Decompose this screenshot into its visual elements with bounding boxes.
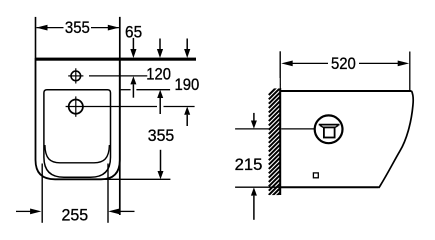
- 215 up arrow: [251, 187, 257, 195]
- drain hole (large, circle with cross): [69, 100, 83, 114]
- svg-text:190: 190: [174, 76, 199, 94]
- up arrow 120 dim: [157, 90, 163, 98]
- hatch top/bottom trim masks: [268, 78, 280, 88]
- svg-text:65: 65: [125, 23, 142, 41]
- bowl inner line: [45, 145, 110, 163]
- svg-text:215: 215: [235, 156, 263, 174]
- svg-text:355: 355: [65, 19, 90, 37]
- dimension 355 top: line + arrows: [36, 27, 63, 29]
- wall line (plan view, thick top edge): [35, 58, 196, 61]
- bidet rim outline: [44, 90, 111, 178]
- bottom extension line (355 dim): [95, 178, 170, 180]
- drain symbol lid bar: [319, 124, 340, 126]
- dimension 520: arrows + line: [281, 61, 293, 67]
- wall face line (side view): [279, 51, 281, 89]
- svg-text:520: 520: [331, 55, 356, 73]
- down arrow 355 vertical dim: [160, 150, 162, 172]
- small fixing square: [313, 173, 318, 178]
- left edge extension above: [35, 17, 37, 58]
- up arrow 190 dim: [184, 107, 190, 115]
- leader from drain hole (190 dim): [86, 106, 157, 108]
- svg-text:120: 120: [146, 66, 171, 84]
- up arrow 65 dim: [130, 76, 136, 84]
- svg-text:255: 255: [61, 207, 88, 225]
- 255 left extension line: [41, 164, 43, 223]
- drain symbol outer circle: [315, 115, 343, 143]
- 520 right extension line: [409, 52, 411, 91]
- leader from faucet hole: [89, 75, 147, 77]
- rim-top extension line (120 dim): [121, 89, 131, 91]
- dimension 255 bottom: line + arrows: [16, 210, 32, 212]
- bidet outer body outline (plan view): [36, 58, 120, 179]
- 215 down arrow: [253, 113, 255, 122]
- side view right curved edge: [379, 91, 413, 188]
- drain leader line (side view): [281, 128, 315, 130]
- drain symbol body square: [324, 127, 335, 137]
- svg-text:355: 355: [148, 127, 175, 145]
- down arrow at wall (190 dim): [186, 39, 188, 52]
- 255 right extension line: [107, 164, 109, 223]
- 215 top extension line: [235, 128, 270, 130]
- faucet hole (small, circle with cross): [71, 71, 81, 81]
- 215 bottom extension line: [235, 186, 280, 188]
- drain symbol lid connectors: [320, 125, 324, 127]
- down arrow at wall (120 dim): [159, 39, 161, 52]
- down arrow at wall (65 dim): [132, 38, 134, 51]
- wall hatching: [269, 84, 280, 204]
- side view bottom edge: [280, 186, 379, 188]
- side view top edge: [280, 90, 411, 92]
- right edge / long extension line: [119, 17, 121, 215]
